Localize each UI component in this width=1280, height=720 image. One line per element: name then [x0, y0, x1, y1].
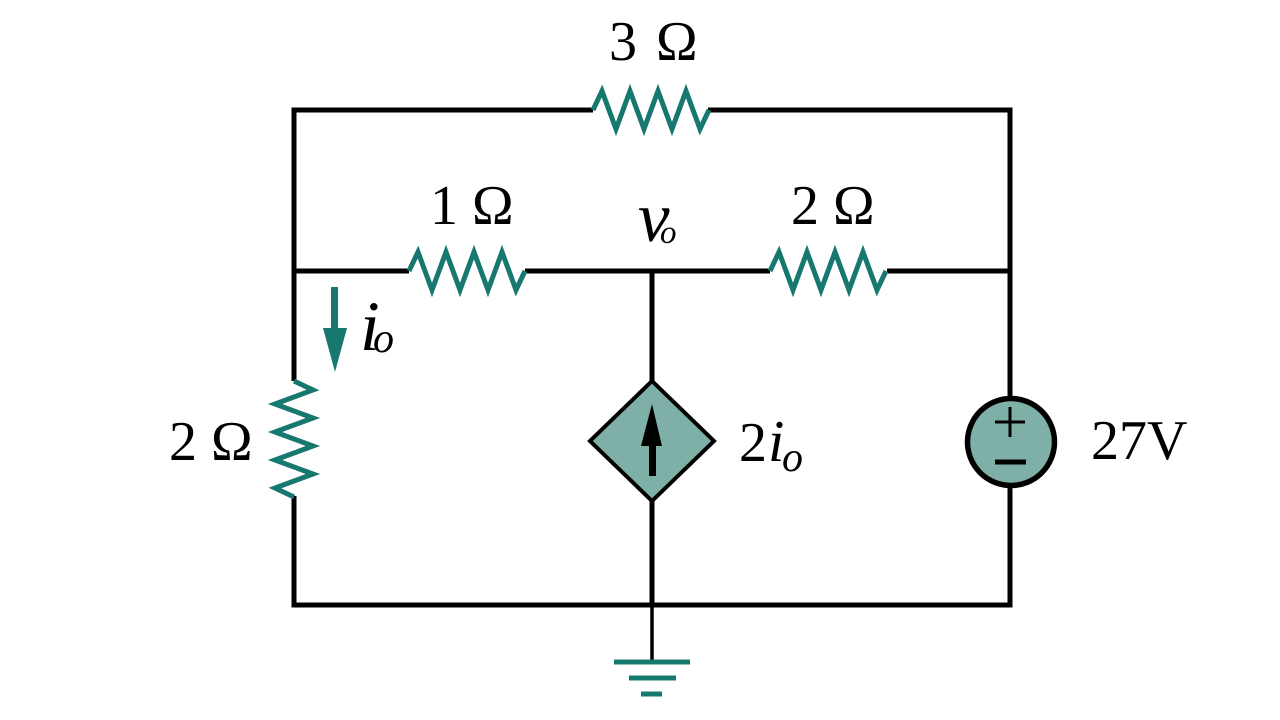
svg-text:o: o	[782, 435, 803, 481]
label 1 ohm	[430, 175, 514, 237]
resistor 3 ohm (top)	[593, 91, 709, 129]
label 2io	[739, 408, 803, 481]
wire middle horizontal left (node A to 1ohm)	[294, 269, 409, 274]
wire top-left to 3ohm (top loop left segment)	[294, 110, 593, 381]
wire 2ohm to right rail	[887, 269, 1012, 274]
svg-text:Ω: Ω	[656, 11, 698, 73]
resistor 2 ohm (middle right)	[770, 252, 886, 290]
label 27 V	[1091, 410, 1187, 472]
svg-text:o: o	[373, 316, 394, 362]
svg-text:o: o	[660, 215, 677, 251]
plus sign	[995, 407, 1025, 437]
svg-text:2: 2	[739, 412, 767, 474]
label 2 ohm (middle right)	[791, 175, 875, 237]
wire dependent source to bottom wire	[650, 500, 655, 605]
svg-text:2 Ω: 2 Ω	[791, 175, 875, 237]
label 3 ohm	[609, 11, 698, 73]
dependent source arrow (up)	[641, 404, 662, 476]
svg-text:1 Ω: 1 Ω	[430, 175, 514, 237]
wire node vo down to dependent source	[650, 271, 655, 383]
svg-text:2 Ω: 2 Ω	[169, 411, 253, 473]
wire ground stem	[650, 605, 654, 661]
svg-text:27: 27	[1091, 410, 1147, 472]
current io arrow	[323, 287, 347, 372]
node vo label	[638, 179, 677, 257]
resistor 1 ohm (middle left)	[409, 252, 525, 290]
ground symbol	[614, 662, 690, 694]
label io	[360, 288, 394, 366]
wire node vo to 2ohm	[652, 269, 770, 274]
wire 1ohm to node vo	[525, 269, 652, 274]
svg-text:V: V	[1147, 410, 1187, 472]
wire bottom-left segment	[294, 496, 652, 605]
wire source bottom to bottom-right corner to ground node	[652, 488, 1010, 605]
voltage source 27V (circle)	[968, 399, 1055, 486]
dependent current source (diamond)	[590, 381, 714, 501]
svg-text:3: 3	[609, 11, 637, 73]
minus sign	[995, 460, 1026, 465]
resistor 2 ohm (left vertical)	[275, 381, 313, 497]
wire 3ohm to top-right corner down to source top	[708, 110, 1010, 396]
label 2 ohm (left)	[169, 411, 253, 473]
